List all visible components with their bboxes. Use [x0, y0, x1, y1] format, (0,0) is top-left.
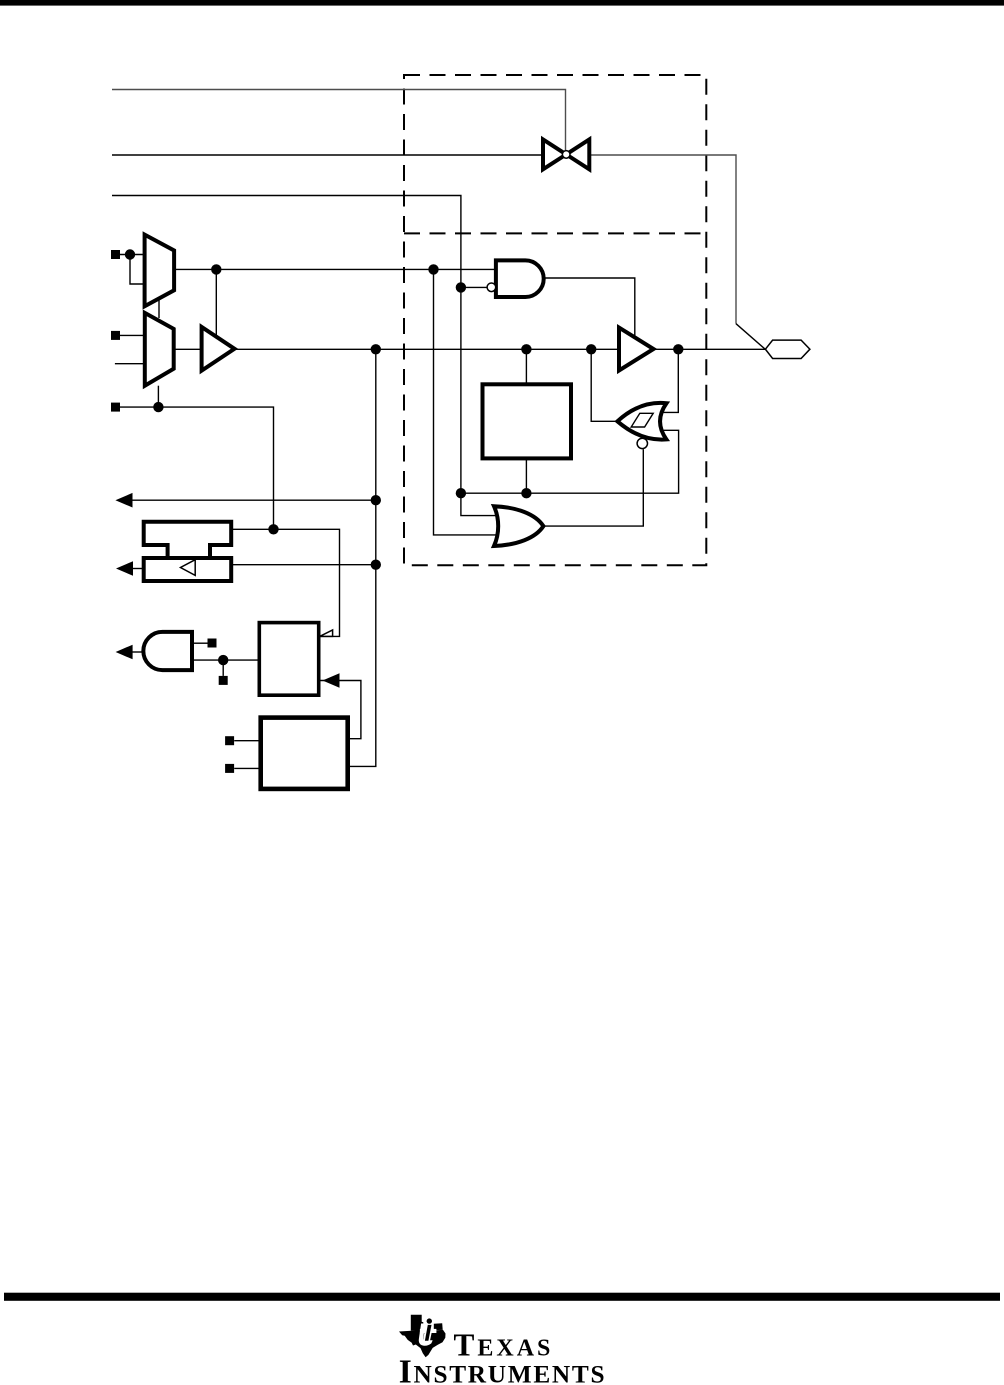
- svg-text:TEXAS: TEXAS: [454, 1327, 554, 1362]
